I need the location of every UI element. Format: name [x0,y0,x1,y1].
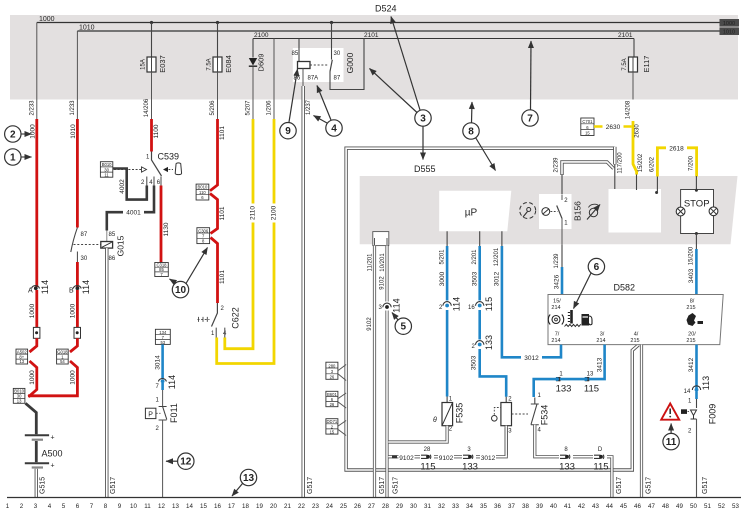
svg-text:34: 34 [466,503,473,510]
wire 3412 (blue) from D582 pin 20/215 to F009 [684,345,711,399]
svg-text:3426: 3426 [554,274,561,289]
svg-text:+: + [51,435,55,442]
svg-text:15/200: 15/200 [689,246,695,265]
connector B010/30/13 at battery junction [13,388,25,403]
svg-text:30: 30 [334,51,341,57]
svg-text:40: 40 [550,503,557,510]
svg-text:6/202: 6/202 [650,156,656,172]
svg-text:G517: G517 [110,477,117,494]
ignition switch C539 [114,152,182,187]
handbrake connector box 134/7/53 [155,329,170,345]
node A connector 114 [28,280,50,295]
svg-text:7: 7 [90,503,94,510]
svg-text:30: 30 [410,503,417,510]
wire 1/206 drop from 2100 bus [273,39,275,120]
wire 4002 [113,169,147,200]
svg-text:45: 45 [620,503,627,510]
svg-text:49: 49 [676,503,683,510]
svg-text:26: 26 [330,402,335,407]
svg-text:7.5A: 7.5A [207,58,213,70]
svg-text:1: 1 [559,372,563,378]
svg-text:1: 1 [538,393,542,399]
svg-text:39: 39 [536,503,543,510]
svg-text:1010: 1010 [723,29,735,35]
svg-text:7: 7 [527,114,533,125]
svg-text:37: 37 [508,503,515,510]
svg-text:A: A [28,288,33,295]
svg-text:114: 114 [40,280,50,294]
svg-text:1/237: 1/237 [306,99,312,115]
svg-text:19: 19 [256,503,263,510]
wire 4001 [107,186,154,231]
wire 2100 (yellow) [217,119,278,364]
connector G018 [28,349,77,396]
svg-text:24: 24 [326,503,333,510]
wire 12/201 -> 3012 (blue) from uP to D582 pin 7/214 [494,246,562,362]
svg-text:3: 3 [467,447,471,453]
svg-text:3/: 3/ [600,332,605,338]
svg-text:4: 4 [48,503,52,510]
svg-text:3012: 3012 [494,271,501,286]
junction node on 1000 for E084 [216,21,219,24]
svg-text:3412: 3412 [688,357,695,372]
svg-text:18: 18 [242,503,249,510]
cluster band (parallelogram) [360,176,738,244]
svg-text:3503: 3503 [472,271,479,286]
svg-text:11: 11 [104,172,109,177]
svg-text:1000: 1000 [723,21,735,27]
svg-text:20/: 20/ [688,332,696,338]
svg-text:12: 12 [180,457,192,468]
svg-text:2618: 2618 [669,146,684,153]
svg-text:20: 20 [270,503,277,510]
svg-text:12/201: 12/201 [494,247,500,266]
svg-text:2: 2 [221,306,225,312]
svg-text:8/: 8/ [690,299,695,305]
svg-text:14: 14 [684,389,691,395]
svg-text:G517: G517 [307,477,314,494]
note circle 6 [574,258,605,308]
svg-text:2101: 2101 [364,32,379,39]
svg-text:13: 13 [587,372,594,378]
svg-text:54: 54 [60,359,65,364]
bus 2100/2101 [253,38,634,40]
svg-text:3012: 3012 [481,455,496,462]
svg-text:1/206: 1/206 [267,100,273,116]
svg-text:8: 8 [564,447,568,453]
svg-text:1000: 1000 [39,16,55,23]
svg-text:15/202: 15/202 [638,153,644,172]
svg-text:D609: D609 [257,54,266,72]
svg-text:C306: C306 [198,228,209,233]
svg-text:14/206: 14/206 [144,98,150,117]
svg-text:D582: D582 [614,283,636,293]
svg-text:8: 8 [104,503,108,510]
svg-text:114: 114 [452,297,462,311]
switch contact 87/30 (left part of G015) [71,228,101,287]
svg-text:215: 215 [630,338,639,344]
svg-text:3413: 3413 [597,357,604,372]
svg-text:32: 32 [438,503,445,510]
svg-text:2100: 2100 [271,205,278,220]
svg-text:48: 48 [662,503,669,510]
svg-text:D: D [598,447,603,453]
battery negative to G515 (hollow) [36,469,46,498]
svg-text:1: 1 [146,155,150,161]
svg-text:214: 214 [596,338,605,344]
svg-text:11/201: 11/201 [368,253,374,272]
svg-text:53: 53 [160,340,165,345]
svg-text:42: 42 [578,503,585,510]
switch C622 [198,303,241,339]
svg-text:10/201: 10/201 [380,253,386,272]
svg-text:1101: 1101 [219,206,226,220]
telltale module box [609,189,662,233]
svg-text:6: 6 [76,503,80,510]
svg-text:1000: 1000 [70,370,77,385]
note circle 5 [392,313,411,335]
dimmer icon [587,204,600,219]
junction node on 1000 for E037 [150,21,153,24]
svg-text:47: 47 [648,503,655,510]
svg-text:B156: B156 [573,201,583,221]
svg-text:G517: G517 [393,477,400,494]
svg-text:2/239: 2/239 [554,157,560,173]
note circle 3 [370,17,432,160]
svg-text:133: 133 [484,335,494,350]
svg-text:3014: 3014 [155,355,162,370]
svg-text:G515: G515 [40,477,47,494]
svg-text:2: 2 [141,180,145,186]
svg-text:9: 9 [285,126,291,137]
svg-text:27: 27 [368,503,375,510]
svg-text:52: 52 [718,503,725,510]
svg-text:115: 115 [593,462,608,473]
svg-text:13: 13 [19,359,24,364]
svg-text:2: 2 [20,503,24,510]
svg-text:4001: 4001 [126,210,141,217]
svg-text:+: + [51,463,55,470]
svg-text:2: 2 [472,344,476,350]
wire 1100 to ignition switch [152,119,161,152]
wire 2/233 -> 1000 (red, column A) [30,23,37,288]
svg-text:15A: 15A [141,59,147,70]
note circle 7 [522,41,538,126]
STOP warning lamps [676,176,718,235]
svg-text:G517: G517 [616,477,623,494]
svg-text:B: B [69,288,74,295]
svg-text:3: 3 [379,305,383,311]
svg-text:1101: 1101 [219,270,226,284]
bus 1010 [77,30,719,32]
svg-text:F011: F011 [169,403,179,423]
svg-text:11: 11 [144,503,151,510]
note circle 13 [232,469,257,496]
svg-text:D524: D524 [375,4,397,14]
connector C306/7/8 [197,228,226,303]
svg-text:13: 13 [172,503,179,510]
svg-text:G517: G517 [379,477,386,494]
svg-text:280: 280 [328,363,336,368]
svg-text:2630: 2630 [606,124,621,131]
svg-text:G517: G517 [646,477,653,494]
svg-text:D555: D555 [414,164,436,174]
svg-text:7.5A: 7.5A [622,58,628,70]
svg-text:2: 2 [10,130,16,141]
svg-text:215: 215 [686,305,695,311]
svg-text:115: 115 [584,384,599,395]
note circle 10 [170,248,208,298]
svg-text:17: 17 [228,503,235,510]
svg-text:30: 30 [81,256,88,262]
svg-text:25: 25 [340,503,347,510]
connector box 280/3/26 on frame wire [326,362,346,380]
svg-text:2110: 2110 [250,206,257,220]
warning triangle [661,404,679,420]
F535 pin2 to 10/201 wire (hollow) [388,426,447,442]
svg-text:1010: 1010 [70,124,77,139]
wire 1/233 -> 1010 (red, column B) [70,31,77,228]
svg-text:5/206: 5/206 [210,100,216,116]
svg-text:µP: µP [465,208,478,219]
svg-text:4002: 4002 [119,179,126,194]
svg-text:5/201: 5/201 [440,249,446,265]
D582 pin 4/215 right wire to G517 (hollow) [642,345,653,498]
wire 1000 below node A [29,290,40,352]
svg-text:1000: 1000 [30,124,37,139]
wire 5/201 -> 3000 (blue) from uP [439,246,462,397]
svg-text:F535: F535 [455,403,465,424]
note circle 11 [663,424,679,450]
svg-text:15: 15 [330,429,335,434]
svg-text:87A: 87A [308,76,319,82]
note circle 9 [280,69,298,139]
svg-text:9102: 9102 [380,276,386,290]
fuel pump icon [582,314,593,326]
svg-text:28: 28 [424,447,431,453]
bus 1000 [37,22,720,24]
svg-text:1: 1 [211,331,215,337]
svg-text:36: 36 [494,503,501,510]
note circle 1 [5,149,32,165]
wire 1101 (red) [210,119,226,191]
svg-text:1/233: 1/233 [70,100,76,116]
connector A502 [16,349,37,397]
wire 1/239 -> 3426 (blue) from B156 to D582 [554,244,563,294]
svg-text:14: 14 [186,503,193,510]
svg-text:3: 3 [34,503,38,510]
svg-text:1100: 1100 [153,124,160,138]
svg-text:2/201: 2/201 [472,249,478,265]
svg-text:2101: 2101 [618,32,633,39]
svg-text:9102: 9102 [367,317,373,331]
battery feed wire (thick black) [26,403,37,434]
svg-text:4: 4 [331,124,337,135]
svg-text:5: 5 [401,322,407,333]
svg-text:2630: 2630 [635,124,641,138]
svg-text:STOP: STOP [684,199,710,210]
note circle 4 [314,86,343,137]
svg-text:113: 113 [701,376,711,390]
svg-text:2: 2 [156,426,160,432]
svg-text:2: 2 [508,397,512,403]
svg-text:E037: E037 [158,55,167,73]
connector C701 [581,118,632,136]
temperature sensor F535 [433,397,465,433]
svg-text:44: 44 [606,503,613,510]
connector box B601/6/26 on frame wire [326,391,346,408]
svg-text:29: 29 [396,503,403,510]
svg-text:P: P [148,412,153,419]
svg-text:7/200: 7/200 [689,155,695,171]
svg-text:F534: F534 [540,405,550,426]
fuse E117 7.5A [622,39,651,120]
bottom grid line [7,497,741,499]
svg-text:10: 10 [130,503,137,510]
svg-text:41: 41 [564,503,571,510]
svg-text:43: 43 [592,503,599,510]
wire 3014 (blue) [155,344,178,390]
connector B010/110/6 [196,184,226,233]
svg-text:21: 21 [284,503,291,510]
svg-text:15/: 15/ [553,299,561,305]
svg-text:133: 133 [462,462,478,473]
svg-text:4: 4 [149,180,153,186]
svg-text:214: 214 [551,338,560,344]
uP pin stubs [447,231,502,246]
note circle 12 [166,453,194,469]
svg-text:133: 133 [556,384,572,395]
svg-text:9102: 9102 [439,455,454,462]
svg-text:115: 115 [420,462,435,473]
svg-text:15: 15 [585,131,590,136]
svg-text:2100: 2100 [254,32,269,39]
wire 117/200 drop into cluster [615,147,624,190]
wire 2/201 -> 3503 (blue) from uP [468,246,506,397]
svg-text:35: 35 [480,503,487,510]
svg-text:1: 1 [449,397,453,403]
svg-text:F009: F009 [708,404,718,425]
note circle 8 [463,102,496,171]
svg-text:5/207: 5/207 [246,100,252,116]
svg-text:86: 86 [294,76,301,82]
svg-text:7: 7 [156,384,160,390]
svg-text:2: 2 [449,427,453,433]
svg-text:θ: θ [433,417,437,424]
svg-text:2: 2 [688,429,692,435]
svg-text:3403: 3403 [688,268,695,283]
svg-text:26: 26 [330,375,335,380]
svg-text:114: 114 [167,375,177,389]
connector C318/85/7 [155,263,169,277]
wire 2/239 from B156 pin 2 [554,157,614,195]
svg-text:10: 10 [175,285,187,296]
clock module B156 [539,194,583,244]
svg-text:6: 6 [157,180,161,186]
node B connector 114 [69,280,91,295]
svg-text:115: 115 [484,297,494,311]
wire 2110 (yellow) [225,119,257,349]
wire 11/201 to G517 (hollow) [367,246,386,498]
wire 1/237 (hollow) from G000 pin 86 to G517 [303,86,314,498]
svg-text:1: 1 [688,399,692,405]
svg-text:C539: C539 [158,152,180,162]
svg-text:11: 11 [666,437,677,448]
wire G015 pin86 to G517 (hollow) [107,248,117,497]
svg-text:1: 1 [156,398,160,404]
connector box DD71/2/15 on frame wire [326,419,346,436]
svg-text:114: 114 [81,280,91,294]
svg-text:53: 53 [732,503,739,510]
svg-text:23: 23 [312,503,319,510]
svg-text:12: 12 [158,503,165,510]
svg-text:1130: 1130 [163,222,170,236]
svg-text:133: 133 [559,462,575,473]
wire 1000 below node B [70,290,81,352]
svg-text:51: 51 [704,503,711,510]
svg-text:87: 87 [334,76,341,82]
note circle 2 [5,126,32,142]
svg-text:1101: 1101 [219,126,226,140]
wire 10/201 to G517 (hollow) with inline connector [379,246,402,498]
diode D609 [246,39,266,120]
wire 6/202 into telltale box [656,176,658,193]
svg-text:114: 114 [392,298,402,312]
brake warning icon [548,315,563,325]
battery A500 [25,435,63,470]
wire 1130 (red) from C539 pin 6 [161,186,170,263]
relay G015 [101,230,126,262]
svg-text:4/: 4/ [634,332,639,338]
svg-text:215: 215 [686,338,695,344]
svg-text:C622: C622 [231,307,241,329]
svg-text:E084: E084 [224,55,233,73]
svg-text:5: 5 [62,503,66,510]
svg-text:3: 3 [420,114,426,125]
svg-text:13: 13 [243,473,255,484]
svg-text:G517: G517 [702,477,709,494]
net tag 1000 [720,19,740,27]
junction node on 1000 for G000 pin30 [330,21,333,24]
svg-text:28: 28 [382,503,389,510]
svg-text:C701: C701 [582,119,593,124]
pressure switch F534 [492,393,550,435]
top supply band [10,15,738,100]
svg-text:4: 4 [538,428,542,434]
svg-text:1000: 1000 [29,303,36,318]
svg-text:3000: 3000 [439,271,446,286]
speedometer icon [520,203,536,219]
svg-text:E117: E117 [642,56,651,73]
svg-text:33: 33 [452,503,459,510]
hollow wire loop: 117/200 run - left frame - bottom run - to D582 pin 4/215 [346,148,638,470]
svg-text:1010: 1010 [79,25,95,32]
wire 3413 (blue) from D582 pin 3/214 to F534 [534,345,605,397]
svg-text:9102: 9102 [399,455,414,462]
yellow wire 2630 from fuse E117 [633,121,644,175]
svg-text:6: 6 [594,262,600,273]
F534 pin 3 wire (hollow) [505,426,508,456]
cluster exit notch 11/201 10/201 [368,232,389,272]
svg-text:3: 3 [508,429,512,435]
svg-text:117/200: 117/200 [618,152,624,174]
svg-text:2/233: 2/233 [30,100,36,116]
svg-text:26: 26 [354,503,361,510]
svg-text:A500: A500 [42,449,63,459]
net tag 1010 [720,27,740,35]
svg-text:3503: 3503 [471,355,478,370]
svg-text:1: 1 [10,153,16,164]
